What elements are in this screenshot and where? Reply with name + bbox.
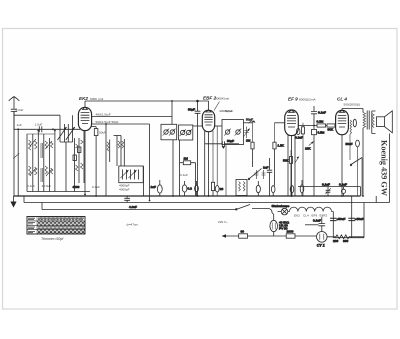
svg-text:+50uF: +50uF <box>355 217 364 221</box>
capacitor 50pF with down arrow <box>205 139 240 149</box>
svg-text:1uF: 1uF <box>17 123 22 127</box>
resistor 1000 <box>286 230 295 239</box>
svg-text:Koenig 439 GW: Koenig 439 GW <box>380 140 389 197</box>
svg-text:Trimmer=50pf: Trimmer=50pf <box>41 237 64 241</box>
resistor 60 <box>239 230 248 239</box>
svg-text:50uF: 50uF <box>346 142 353 146</box>
choke right of CL4 <box>350 120 352 160</box>
table header scribbles <box>28 218 84 233</box>
svg-text:480(1.5)uF: 480(1.5)uF <box>96 113 111 117</box>
transformer core <box>367 111 369 130</box>
speaker <box>372 111 393 134</box>
smoothing resistor zigzag <box>327 235 364 243</box>
svg-text:50pF: 50pF <box>246 118 253 122</box>
trimmer capacitor 50pF <box>243 127 250 139</box>
electrolytic 1uF with oval <box>151 180 163 196</box>
oval CL4 cathode <box>353 119 356 127</box>
svg-text:1M: 1M <box>246 139 251 143</box>
svg-text:CY 1: CY 1 <box>317 244 325 248</box>
svg-text:0.1uF: 0.1uF <box>27 184 35 188</box>
mains switch lever <box>236 205 269 211</box>
electrolytic 50uF under CL4 <box>346 140 360 196</box>
svg-text:4000: 4000 <box>73 185 80 189</box>
resistor 1.5K vertical <box>273 123 285 186</box>
rectifier CY1 <box>317 232 328 248</box>
IF1 shield box b <box>179 125 193 140</box>
svg-text:0.3M: 0.3M <box>317 119 324 123</box>
svg-text:0.1uF: 0.1uF <box>339 182 347 186</box>
svg-text:0.2uF: 0.2uF <box>295 136 303 140</box>
svg-text:0.5M: 0.5M <box>318 131 325 135</box>
svg-text:4000K(mit: 4000K(mit <box>215 97 229 101</box>
vertical x=376 <box>375 196 377 203</box>
antenna coil L1 windings <box>29 139 38 176</box>
coil lattice verticals <box>27 131 90 192</box>
resistor right of EF9 <box>302 123 305 196</box>
shunt capacitor 1uF on AF line <box>263 158 272 196</box>
resistor 50K horizontal <box>327 124 335 132</box>
antenna <box>9 97 20 109</box>
bus B3 heater y=209.5 <box>42 203 236 210</box>
cathode oval EF9 <box>295 129 303 140</box>
tuning gang variable capacitor C1 <box>58 115 67 142</box>
svg-text:CL4: CL4 <box>303 214 309 218</box>
wire x=106 down <box>105 124 107 140</box>
wire W4 grid <box>193 125 203 127</box>
volume potentiometer <box>283 150 299 196</box>
capacitor 1.5uF series in lower antenna wire <box>13 122 54 196</box>
svg-text:+50uF: +50uF <box>337 217 346 221</box>
junction dots front end <box>37 130 55 132</box>
wire left rail down to ground <box>13 112 15 197</box>
iron core dashes <box>41 143 42 182</box>
dial lamp <box>269 204 290 215</box>
speaker down wire <box>389 134 391 203</box>
svg-text:Band: Band <box>225 109 233 113</box>
padder box <box>119 166 143 183</box>
svg-text:0.1uF: 0.1uF <box>318 111 326 115</box>
electrolytic ovals under EBF2 <box>182 126 223 196</box>
svg-text:500(2000)Ω: 500(2000)Ω <box>344 103 361 107</box>
mains wire <box>226 235 316 237</box>
svg-text:EK2: EK2 <box>294 214 300 218</box>
svg-text:1.5K: 1.5K <box>278 144 285 148</box>
IF2 shield box <box>222 120 244 197</box>
ground arrow <box>13 196 15 202</box>
wire W5 anode <box>215 125 222 127</box>
svg-text:1000: 1000 <box>287 230 294 234</box>
heater filament bumps <box>290 207 334 217</box>
switch and caps cluster <box>248 169 265 180</box>
detector coil box <box>236 180 247 197</box>
bottom line right block <box>333 203 364 238</box>
svg-text:CL 4: CL 4 <box>337 97 347 102</box>
cathode resistor EK2 50uF <box>92 127 107 197</box>
tuning coil L2 windings <box>45 141 53 176</box>
wires below IF1 <box>173 140 180 196</box>
wire W3 y=124 <box>92 123 150 125</box>
transformer secondary <box>372 114 374 128</box>
svg-text:20: 20 <box>220 187 224 191</box>
diode arrow 18K <box>305 142 314 151</box>
resistor R 12M vertical <box>246 121 254 167</box>
tube CL4 <box>336 109 349 197</box>
svg-text:8000Ω(2mA: 8000Ω(2mA <box>299 98 317 102</box>
svg-text:0.1uF: 0.1uF <box>180 173 188 177</box>
svg-text:50K: 50K <box>283 159 289 163</box>
svg-text:600: 600 <box>343 239 348 243</box>
capacitor 4uF between buses <box>124 196 137 209</box>
heater end vertical with electrolytic 50uF a <box>330 217 345 238</box>
wire W2 y=116.5 <box>92 101 173 124</box>
resistor 0.3M horizontal <box>317 119 326 127</box>
svg-text:1.5uF: 1.5uF <box>35 122 43 126</box>
coil L5 pair <box>114 136 125 167</box>
svg-text:0.2: 0.2 <box>188 187 193 191</box>
bus B1 y=196 <box>14 195 361 197</box>
svg-text:4.0uF: 4.0uF <box>129 205 137 209</box>
svg-text:18K: 18K <box>305 147 311 151</box>
resistor 1M horizontal <box>180 157 196 197</box>
tube EF9 <box>285 110 299 196</box>
alignment table <box>27 217 85 235</box>
electrolytic ovals detector <box>256 180 304 196</box>
50pF curved arrow <box>246 118 256 124</box>
svg-text:EBF2: EBF2 <box>320 214 328 218</box>
resistor under EBF2 <box>211 131 214 196</box>
transformer primary <box>363 113 366 128</box>
svg-text:50pF: 50pF <box>188 108 195 112</box>
mains arrow <box>222 234 227 237</box>
svg-text:50uF: 50uF <box>99 131 106 135</box>
wire IF2 to trimmer <box>244 122 253 124</box>
wire CL4 anode to transformer <box>342 109 363 113</box>
svg-text:ψ=47cm: ψ=47cm <box>127 223 139 227</box>
coupling cap 0.1uF <box>311 106 326 129</box>
IF1 shield box a <box>161 124 177 140</box>
oscillator coil L3 <box>73 131 85 192</box>
svg-text:200: 200 <box>333 239 338 243</box>
table X marks <box>38 221 85 233</box>
wire primary bottom down <box>362 128 364 196</box>
wire antenna lower y=129.3 <box>14 128 80 130</box>
junction dots on buses <box>84 194 364 202</box>
svg-text:40.0uF: 40.0uF <box>42 184 52 188</box>
svg-text:4000pF: 4000pF <box>119 188 130 192</box>
svg-text:EF9: EF9 <box>312 214 318 218</box>
resistor 0.5M on x=314 <box>312 129 325 196</box>
capacitor above CY1 <box>313 217 325 232</box>
label 4000/2uF with pointer <box>214 102 233 114</box>
tone switch <box>350 158 362 197</box>
bus B2 y=202.5 <box>24 196 390 203</box>
svg-text:220 V~: 220 V~ <box>218 220 228 224</box>
urdox resistor <box>270 215 290 237</box>
capacitor antenna series 0.2uF <box>11 108 24 129</box>
coil L4 <box>106 140 110 197</box>
svg-text:60: 60 <box>241 230 245 234</box>
tone caps above B1 <box>322 182 347 196</box>
svg-text:50K: 50K <box>328 128 334 132</box>
svg-text:500(1.5)uF 50pF: 500(1.5)uF 50pF <box>96 120 119 124</box>
wire antenna feed y=115 <box>14 114 60 116</box>
svg-text:Skalenlampe: Skalenlampe <box>272 204 290 208</box>
wire y=224.8 left from cap <box>305 224 319 226</box>
svg-text:0.2uF: 0.2uF <box>16 108 24 112</box>
svg-text:EF 9: EF 9 <box>288 97 298 102</box>
svg-text:50pF: 50pF <box>227 139 234 143</box>
heater tube labels <box>294 214 328 218</box>
svg-text:0.1uF: 0.1uF <box>322 182 330 186</box>
tube EBF2 <box>202 101 214 196</box>
wire W6 EF9 grid <box>275 122 285 124</box>
right vertical x=360.5 <box>360 187 362 196</box>
B+ line y=186.6 <box>298 186 361 188</box>
wire W7 grid CL4 <box>298 125 336 127</box>
tuning gang variable capacitor C2 <box>60 115 75 191</box>
wire W1 anode top y=101 <box>85 100 209 102</box>
tube EK2 <box>78 101 91 195</box>
wire verticals x=143.5 149.5 <box>144 124 150 201</box>
svg-text:500K (mit: 500K (mit <box>90 97 103 101</box>
svg-text:1M: 1M <box>184 157 189 161</box>
svg-text:1uF: 1uF <box>151 185 156 189</box>
svg-text:EK2: EK2 <box>79 96 88 101</box>
electrolytic 50uF b <box>348 196 363 238</box>
svg-text:1uF: 1uF <box>263 166 268 170</box>
svg-text:0.1uF: 0.1uF <box>313 219 321 223</box>
grid cap 50pF on wire from W1 <box>188 100 200 196</box>
